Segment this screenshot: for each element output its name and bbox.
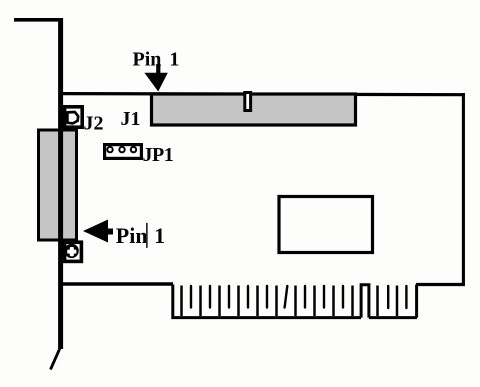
J1 key notch xyxy=(245,93,251,111)
bottom screw-hole box xyxy=(65,242,82,261)
card outline bottom edge left segment xyxy=(60,282,173,285)
svg-text:J2: J2 xyxy=(84,113,104,135)
chip U1 xyxy=(279,197,373,253)
edge connector slanted short pin xyxy=(285,286,288,308)
pin 1 left arrow head xyxy=(83,220,108,243)
JP1 pin 2 circle xyxy=(119,147,124,152)
svg-text:Pin 1: Pin 1 xyxy=(116,223,165,248)
edge connector teeth group 1 short pins xyxy=(191,286,343,308)
edge connector outline xyxy=(171,285,417,318)
text caret artifact xyxy=(146,223,148,248)
J2 gray D-sub connector body xyxy=(39,130,77,240)
bracket vertical rail xyxy=(58,18,63,349)
edge connector teeth group 2 xyxy=(378,286,398,317)
pin 1 down arrow head xyxy=(144,73,167,92)
J1 connector body xyxy=(152,94,356,125)
card outline top edge xyxy=(60,94,465,95)
J2 top screw-hole box xyxy=(65,107,83,127)
bottom screw slot cross xyxy=(67,250,76,254)
edge connector teeth group 1 long fingers xyxy=(182,286,353,317)
J2 top screw-hole D shape xyxy=(67,112,78,123)
JP1 pin 1 circle xyxy=(107,147,112,152)
svg-text:Pin 1: Pin 1 xyxy=(133,49,180,71)
card outline bottom edge right segment xyxy=(416,283,465,286)
svg-text:JP1: JP1 xyxy=(143,144,174,166)
bracket top tab xyxy=(14,18,62,22)
bottom screw head xyxy=(64,244,78,258)
pin 1 left arrow stem xyxy=(108,229,114,235)
bracket bottom diagonal xyxy=(51,349,60,370)
JP1 jumper block xyxy=(105,145,142,159)
svg-text:J1: J1 xyxy=(121,108,141,130)
pin 1 down arrow stem xyxy=(156,64,160,74)
card outline right edge xyxy=(462,93,465,286)
JP1 pin 3 circle xyxy=(131,147,136,152)
